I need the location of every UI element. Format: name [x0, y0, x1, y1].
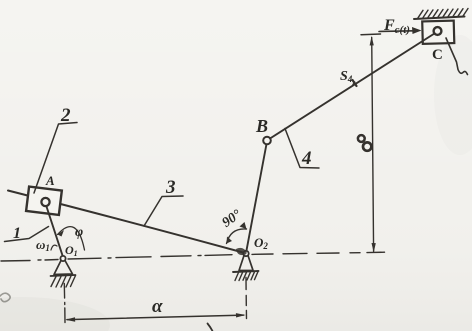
slider C block — [422, 21, 454, 44]
O1 ground line — [51, 275, 76, 276]
leader 4 — [285, 129, 319, 169]
leader 2 — [34, 123, 77, 194]
phi arc — [58, 227, 85, 250]
slider block A (filled, tilted) — [26, 187, 62, 215]
dim b: top extension — [361, 33, 381, 36]
centerline through O1 and O2 (dash-dot) — [1, 252, 385, 261]
ink blob at O2 joint — [236, 248, 247, 255]
svg-text:A: A — [45, 173, 55, 188]
leader 3 — [144, 196, 183, 226]
crank O1-A (link 1) — [46, 205, 63, 257]
pin C — [434, 27, 442, 35]
dim b: up arrow — [370, 36, 374, 46]
phi arc arrowhead — [58, 230, 65, 237]
svg-text:2: 2 — [60, 105, 71, 126]
ceiling line above C — [414, 17, 465, 20]
pivot O1 — [60, 256, 65, 261]
dim a: left extension (dash-dot) — [63, 284, 66, 323]
dim a: line with arrows — [67, 315, 244, 320]
O2 hatching — [235, 272, 258, 281]
O2 ground line — [233, 271, 259, 272]
leader squiggle from C — [446, 38, 468, 75]
ceiling hatching — [418, 9, 468, 18]
O2 support triangle — [239, 256, 253, 271]
90 deg arc with arrows — [227, 229, 247, 244]
svg-text:1: 1 — [13, 225, 21, 242]
dim b: down arrow — [372, 243, 376, 253]
svg-text:B: B — [255, 116, 268, 136]
pin B — [263, 137, 271, 145]
link 4 (B–C) — [270, 33, 436, 139]
svg-text:C: C — [432, 47, 443, 63]
pivot O2 — [243, 251, 248, 256]
omega1 hook arrow — [51, 245, 57, 250]
dim b: vertical line — [372, 38, 374, 252]
svg-text:α: α — [152, 296, 163, 317]
svg-text:3: 3 — [165, 177, 176, 198]
faint left-edge smudge — [0, 293, 10, 301]
force F arrow — [379, 30, 414, 33]
svg-text:4: 4 — [301, 148, 312, 169]
O1 support triangle — [54, 261, 73, 275]
dim a: right extension (dashed) — [245, 278, 248, 319]
stray mark bottom — [208, 324, 213, 331]
link 3 (long rod A–O2) — [8, 191, 246, 254]
S4 tick on link 4 — [353, 80, 357, 86]
leader 1 — [5, 227, 49, 242]
link B-O2 — [246, 144, 267, 253]
svg-text:φ: φ — [75, 225, 83, 240]
label b (two-loop handwritten glyph, rotated) — [358, 135, 365, 142]
pin A — [41, 198, 49, 206]
O1 hatching — [51, 276, 76, 288]
